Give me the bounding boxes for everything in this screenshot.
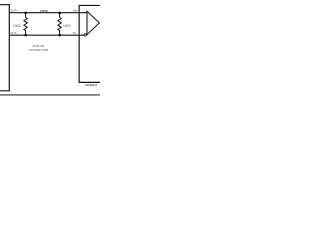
figure bottom border (0, 94, 100, 96)
wire OUT- to IN- (bottom) (9, 34, 84, 36)
op-amp receiver triangle (87, 11, 99, 35)
inversion bubble at IN- (84, 34, 86, 36)
node: R1 bottom junction (24, 34, 27, 37)
svg-text:OUT+: OUT+ (10, 9, 18, 13)
svg-text:100Ω: 100Ω (63, 24, 71, 28)
driver box U1 (cut off at left edge) (0, 5, 9, 91)
svg-text:100Ω: 100Ω (13, 24, 21, 28)
node: R2 bottom junction (58, 34, 61, 37)
node: R1 top junction (24, 12, 27, 15)
svg-text:IN+: IN+ (73, 9, 78, 13)
svg-text:TWISTED PAIR: TWISTED PAIR (29, 48, 49, 52)
resistor R2 100Ω (right termination) (58, 13, 61, 35)
svg-text:MAX9111: MAX9111 (85, 83, 97, 87)
resistor R1 100Ω (left termination) (24, 13, 27, 35)
node: R2 top junction (58, 12, 61, 15)
svg-text:OUT-: OUT- (10, 31, 17, 35)
svg-text:LVDS: LVDS (40, 9, 48, 13)
wire OUT+ to IN+ (top) (9, 12, 87, 14)
svg-text:IN-: IN- (73, 31, 77, 35)
receiver box U2 (cut off at right edge) (79, 5, 100, 82)
